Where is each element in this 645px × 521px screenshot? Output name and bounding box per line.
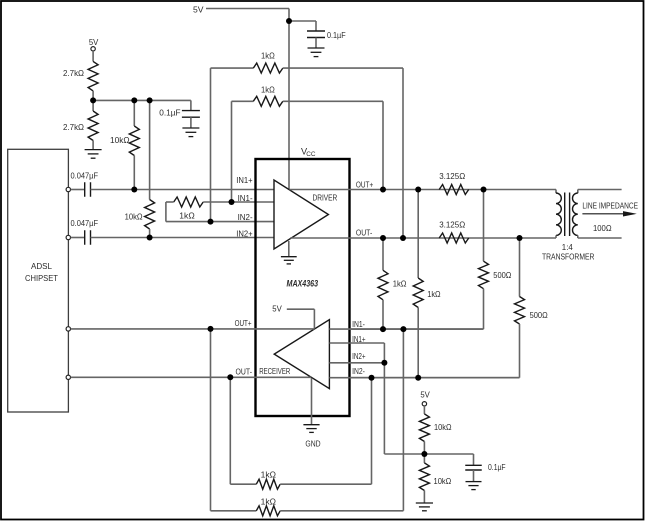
wire IN1- receiver line: [329, 328, 483, 330]
wire: [280, 329, 403, 511]
wire: [473, 470, 475, 482]
capacitor C 0.047µF upper coupling: [85, 182, 91, 197]
wire: [423, 491, 425, 504]
resistor 2.7kΩ lower: [88, 111, 98, 141]
svg-text:OUT+: OUT+: [235, 318, 252, 328]
net 5V receiver supply: [272, 303, 282, 313]
value label 10kΩ: [434, 422, 452, 432]
value label 500Ω: [493, 270, 512, 280]
svg-text:IN1-: IN1-: [352, 319, 365, 329]
svg-text:1kΩ: 1kΩ: [261, 496, 277, 506]
value label 0.1µF: [488, 462, 506, 472]
resistor 10kΩ bias lower: [419, 463, 429, 491]
resistor 1kΩ feedback OUT+ to IN1-: [253, 96, 282, 106]
wire: [280, 378, 371, 485]
node junction: [147, 235, 153, 241]
svg-text:0.1µF: 0.1µF: [488, 462, 506, 472]
node junction: [517, 235, 523, 241]
label RECEIVER: [259, 366, 290, 376]
wire: [315, 38, 317, 49]
value label 10kΩ: [125, 212, 143, 222]
resistor 3.125Ω upper: [439, 185, 469, 195]
wire: [350, 324, 520, 378]
svg-text:ADSL: ADSL: [31, 261, 52, 271]
transformer T1 primary winding: [556, 190, 561, 239]
value label 3.125Ω: [439, 220, 465, 230]
label ADSL: [31, 261, 52, 271]
ground: [85, 150, 102, 159]
wire: [283, 68, 403, 238]
value label 10kΩ: [110, 135, 130, 145]
value label 1kΩ: [261, 51, 275, 61]
value label 1kΩ: [261, 470, 277, 480]
wire: [230, 377, 256, 484]
resistor 10kΩ bias upper: [419, 414, 429, 442]
svg-text:100Ω: 100Ω: [593, 223, 612, 233]
node junction: [90, 97, 96, 103]
resistor 2.7kΩ upper: [88, 61, 98, 91]
svg-text:10kΩ: 10kΩ: [434, 476, 452, 486]
resistor 500Ω lower termination: [515, 297, 525, 325]
node junction: [227, 374, 233, 380]
value label 1kΩ: [261, 85, 275, 95]
wire: [382, 300, 384, 329]
pin label OUT+ driver: [356, 179, 373, 189]
svg-text:1kΩ: 1kΩ: [427, 289, 441, 299]
node junction: [400, 235, 406, 241]
svg-text:1kΩ: 1kΩ: [261, 470, 277, 480]
value label 1kΩ: [179, 210, 195, 220]
resistor 10kΩ bias to IN2+: [145, 200, 155, 230]
wire: [423, 406, 425, 414]
svg-text:500Ω: 500Ω: [530, 310, 549, 320]
wire IN1+ line: [91, 189, 275, 191]
svg-text:1kΩ: 1kΩ: [261, 85, 275, 95]
svg-text:IN1+: IN1+: [236, 175, 252, 185]
resistor 1kΩ feedback OUT- to IN2-: [253, 63, 282, 73]
svg-text:10kΩ: 10kΩ: [110, 135, 130, 145]
svg-text:10kΩ: 10kΩ: [125, 212, 143, 222]
wire: [417, 308, 419, 378]
capacitor C 0.1µF left decoupling: [182, 111, 200, 118]
terminal 5V: [91, 47, 95, 51]
op-amp driver triangle: [274, 180, 328, 249]
resistor 500Ω upper termination: [479, 261, 489, 289]
net 5V bias supply: [420, 390, 430, 400]
label TRANSFORMER: [542, 251, 594, 261]
terminal chipset RX+: [66, 327, 70, 331]
svg-text:DRIVER: DRIVER: [313, 192, 338, 202]
node junction: [380, 235, 386, 241]
node junction: [380, 187, 386, 193]
svg-text:2.7kΩ: 2.7kΩ: [63, 122, 84, 132]
wire: [211, 329, 257, 511]
wire: [211, 68, 254, 222]
node junction: [131, 97, 137, 103]
wire IN1- line: [166, 201, 274, 203]
pin label IN1- receiver: [352, 319, 365, 329]
resistor 10kΩ bias to IN1+: [129, 126, 139, 156]
value label 1kΩ: [427, 289, 441, 299]
node junction: [380, 326, 386, 332]
block ADSL CHIPSET: [8, 149, 69, 412]
wire bias tie: [384, 363, 473, 466]
svg-text:IN2+: IN2+: [236, 228, 252, 238]
IC MAX4363 outline: [256, 159, 350, 416]
svg-text:IN2-: IN2-: [238, 212, 253, 222]
pin label OUT- receiver: [236, 367, 253, 377]
pin label OUT- driver: [356, 227, 372, 237]
capacitor C 0.047µF lower coupling: [85, 230, 91, 245]
ground: [416, 503, 433, 511]
wire bias rail: [93, 100, 191, 110]
net 5V top supply: [193, 5, 204, 15]
wire: [417, 190, 419, 279]
wire secondary top: [578, 189, 622, 191]
value label 1kΩ: [261, 496, 277, 506]
svg-text:IN1-: IN1-: [238, 193, 253, 203]
wire secondary bottom: [578, 237, 622, 239]
value label 0.1µF: [327, 30, 346, 40]
svg-text:OUT+: OUT+: [356, 179, 373, 189]
value label 2.7kΩ: [63, 122, 84, 132]
svg-text:CC: CC: [306, 151, 316, 158]
resistor 1kΩ receiver feedback OUT- to IN2-: [256, 479, 280, 489]
pin label IN1+ receiver: [352, 334, 366, 344]
capacitor C 0.1µF top bypass: [307, 31, 325, 38]
ground GND receiver: [303, 378, 319, 433]
resistor 1kΩ OUT+ to IN2-: [413, 278, 423, 308]
svg-text:IN2+: IN2+: [352, 351, 366, 361]
value label 0.1µF: [159, 108, 180, 118]
svg-text:0.1µF: 0.1µF: [327, 30, 346, 40]
wire: [232, 101, 254, 202]
wire: [71, 189, 85, 191]
terminal chipset TX-: [66, 235, 70, 239]
label 1:4: [562, 242, 573, 252]
svg-text:GND: GND: [305, 438, 320, 448]
wire: [92, 91, 94, 111]
wire: [283, 101, 383, 189]
wire IN1+ receiver line: [329, 343, 384, 363]
op-amp receiver triangle: [274, 320, 329, 389]
node junction: [229, 199, 235, 205]
wire: [71, 237, 85, 239]
value label 2.7kΩ: [63, 68, 84, 78]
pin label IN1- driver: [238, 193, 253, 203]
wire: [483, 190, 485, 262]
pin label IN2- driver: [238, 212, 253, 222]
label LINE IMPEDANCE: [582, 201, 638, 211]
pin label VCC: [301, 147, 316, 159]
resistor 1kΩ OUT- to IN1-: [378, 270, 388, 300]
svg-text:3.125Ω: 3.125Ω: [439, 220, 465, 230]
svg-text:5V: 5V: [193, 5, 204, 15]
wire receiver VCC: [287, 309, 315, 328]
wire IN2+ receiver line: [329, 362, 384, 364]
wire: [519, 238, 521, 297]
svg-text:CHIPSET: CHIPSET: [25, 273, 59, 283]
svg-text:0.1µF: 0.1µF: [159, 108, 180, 118]
label GND: [305, 438, 320, 448]
svg-text:5V: 5V: [89, 37, 99, 47]
wire loop to IN2- line: [166, 202, 274, 222]
svg-text:1kΩ: 1kΩ: [261, 51, 275, 61]
wire to bypass cap: [289, 21, 316, 31]
wire 5V rail to VCC: [206, 9, 289, 190]
value label 500Ω: [530, 310, 549, 320]
svg-text:500Ω: 500Ω: [493, 270, 512, 280]
svg-text:0.047µF: 0.047µF: [71, 218, 99, 228]
resistor 3.125Ω lower: [439, 233, 469, 243]
pin label IN1+ driver: [236, 175, 252, 185]
terminal 5V: [422, 402, 426, 406]
node junction: [208, 326, 214, 332]
svg-text:LINE IMPEDANCE: LINE IMPEDANCE: [582, 201, 638, 211]
svg-text:OUT-: OUT-: [356, 227, 372, 237]
svg-text:OUT-: OUT-: [236, 367, 253, 377]
node junction: [369, 375, 375, 381]
wire: [382, 238, 384, 270]
label CHIPSET: [25, 273, 59, 283]
svg-text:0.047µF: 0.047µF: [71, 170, 99, 180]
node junction: [421, 451, 427, 457]
svg-text:IN1+: IN1+: [352, 334, 366, 344]
wire OUT- receiver line: [71, 376, 311, 378]
svg-text:RECEIVER: RECEIVER: [259, 366, 290, 376]
value label 10kΩ: [434, 476, 452, 486]
pin label IN2- receiver: [352, 366, 365, 376]
svg-text:5V: 5V: [420, 390, 430, 400]
value label 1kΩ: [393, 278, 407, 288]
pin label IN2+ driver: [236, 228, 252, 238]
wire IN2- receiver line: [329, 377, 519, 379]
transformer T1 core: [565, 193, 570, 237]
pin label IN2+ receiver: [352, 351, 366, 361]
svg-text:5V: 5V: [272, 303, 282, 313]
value label 3.125Ω: [439, 171, 465, 181]
label MAX4363: [287, 278, 319, 288]
ground: [466, 482, 482, 490]
ground driver: [281, 241, 297, 264]
value label 0.047µF: [71, 218, 99, 228]
node junction: [381, 360, 387, 366]
wire: [92, 140, 94, 149]
wire IN2+ line: [91, 237, 275, 239]
svg-text:IN2-: IN2-: [352, 366, 365, 376]
wire: [149, 229, 151, 238]
wire OUT+ receiver line: [71, 328, 315, 330]
wire: [190, 117, 192, 128]
wire: [92, 51, 94, 61]
node junction: [415, 187, 421, 193]
arrow line impedance: [582, 211, 636, 216]
node junction: [286, 18, 292, 24]
wire OUT+ line: [289, 189, 556, 191]
svg-text:3.125Ω: 3.125Ω: [439, 171, 465, 181]
terminal chipset RX-: [66, 375, 70, 379]
wire: [423, 442, 425, 463]
wire: [133, 156, 135, 190]
node junction: [481, 187, 487, 193]
ground: [308, 48, 325, 57]
ground: [182, 128, 199, 137]
terminal chipset TX+: [66, 187, 70, 191]
wire: [350, 289, 484, 329]
svg-text:10kΩ: 10kΩ: [434, 422, 452, 432]
pin label OUT+ receiver: [235, 318, 252, 328]
node junction: [131, 187, 137, 193]
node junction: [415, 375, 421, 381]
resistor 1kΩ between IN1- and IN2-: [174, 197, 204, 207]
wire: [149, 100, 151, 199]
net 5V left supply: [89, 37, 99, 47]
transformer T1 secondary winding: [573, 190, 578, 239]
wire OUT- line: [290, 237, 556, 239]
resistor 1kΩ receiver feedback OUT+ to IN1-: [256, 506, 280, 516]
label 100Ω: [593, 223, 612, 233]
value label 0.047µF: [71, 170, 99, 180]
node junction: [400, 326, 406, 332]
svg-text:TRANSFORMER: TRANSFORMER: [542, 251, 594, 261]
svg-text:MAX4363: MAX4363: [287, 278, 319, 288]
svg-text:2.7kΩ: 2.7kΩ: [63, 68, 84, 78]
capacitor C 0.1µF bias filter: [465, 465, 482, 470]
svg-text:1:4: 1:4: [562, 242, 573, 252]
label DRIVER: [313, 192, 338, 202]
svg-text:1kΩ: 1kΩ: [179, 210, 195, 220]
node junction: [208, 219, 214, 225]
node junction: [147, 97, 153, 103]
svg-text:1kΩ: 1kΩ: [393, 278, 407, 288]
wire: [133, 100, 135, 126]
